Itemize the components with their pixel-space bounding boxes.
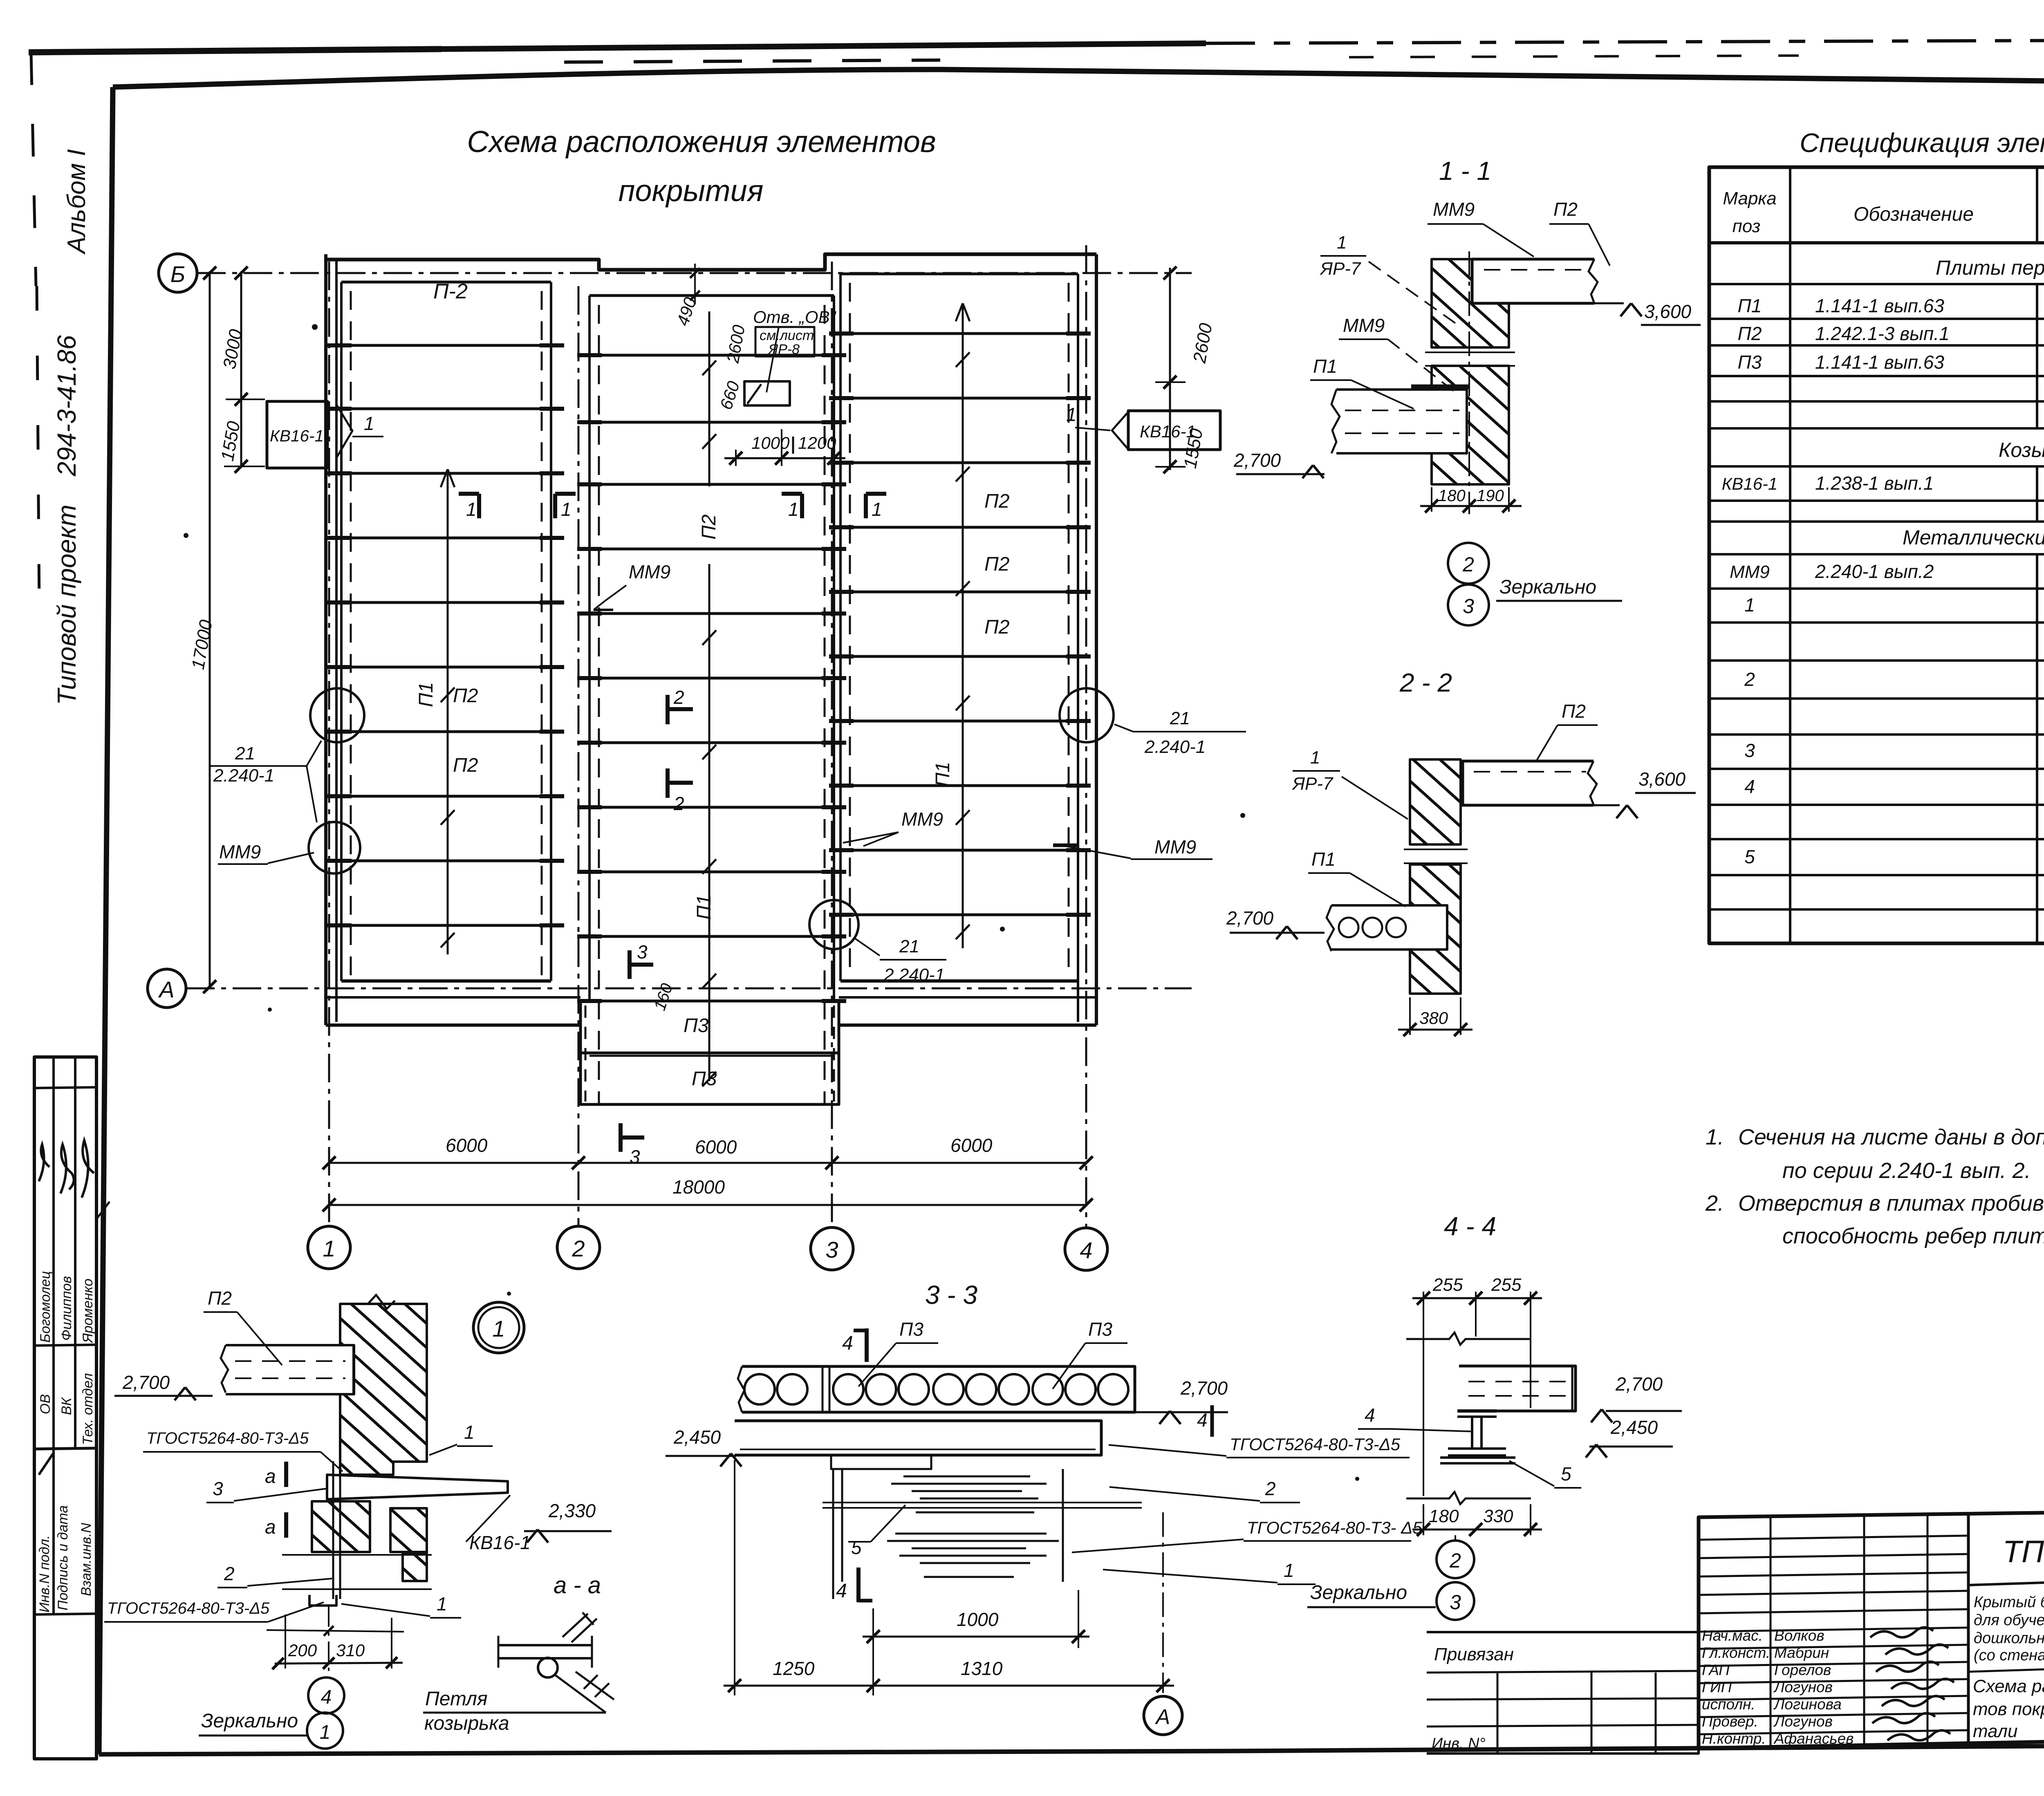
- svg-text:П2: П2: [453, 755, 478, 776]
- axis circle А: [148, 969, 186, 1008]
- a-a lower diagonal marks: [576, 1672, 614, 1700]
- svg-text:П2: П2: [453, 685, 478, 707]
- svg-text:1: 1: [437, 1593, 447, 1615]
- svg-text:1: 1: [1310, 748, 1320, 768]
- svg-text:1: 1: [464, 1422, 475, 1443]
- svg-text:4 - 4: 4 - 4: [1444, 1212, 1496, 1241]
- svg-text:1: 1: [788, 499, 799, 520]
- anchor ticks along bay edges: [327, 343, 352, 347]
- svg-text:П1: П1: [1738, 295, 1762, 316]
- node1 slab П2 dashed: [226, 1345, 354, 1394]
- svg-text:2,700: 2,700: [122, 1372, 170, 1393]
- svg-text:Подпись и дата: Подпись и дата: [55, 1505, 71, 1610]
- svg-text:380: 380: [1419, 1008, 1448, 1028]
- svg-text:3 - 3: 3 - 3: [925, 1280, 977, 1310]
- sidebar check mark: [39, 1453, 53, 1475]
- svg-text:Инв.N подл.: Инв.N подл.: [37, 1535, 52, 1612]
- section 3-3 dim verticals: [734, 1460, 735, 1695]
- svg-text:4: 4: [321, 1686, 332, 1708]
- svg-text:2 - 2: 2 - 2: [1399, 668, 1452, 697]
- svg-text:П2: П2: [698, 515, 720, 540]
- main frame top (scan-warped): [113, 69, 2044, 87]
- svg-text:П-2: П-2: [433, 280, 468, 303]
- axis circle 3: [811, 1227, 853, 1270]
- spec table outer frame: [1709, 167, 2044, 943]
- bottom wall double line right part: [839, 996, 1096, 999]
- svg-text:ТГОСТ5264-80-Т3-Δ5: ТГОСТ5264-80-Т3-Δ5: [107, 1599, 270, 1617]
- svg-text:1250: 1250: [773, 1658, 815, 1679]
- svg-text:П3: П3: [1088, 1319, 1112, 1340]
- svg-text:1: 1: [364, 413, 374, 434]
- svg-text:Схема расположения элемен-: Схема расположения элемен-: [1973, 1676, 2044, 1696]
- axis line 3: [831, 262, 833, 1226]
- svg-text:Провер.: Провер.: [1702, 1713, 1758, 1730]
- svg-text:П3: П3: [899, 1319, 923, 1340]
- section 1-1 axis line: [1468, 251, 1470, 514]
- svg-text:190: 190: [1477, 487, 1504, 505]
- svg-text:Логунов: Логунов: [1773, 1713, 1833, 1730]
- svg-text:1: 1: [1744, 594, 1755, 616]
- svg-text:исполн.: исполн.: [1702, 1696, 1755, 1713]
- svg-text:тали: тали: [1973, 1721, 2017, 1741]
- section 3-3 supporting beam strip: [735, 1421, 1101, 1455]
- node1 masonry hatched below canopy: [312, 1501, 370, 1552]
- section 1-1 wall break lines: [1425, 352, 1515, 353]
- right dim line 2600/1550: [1169, 268, 1171, 470]
- dim line 1000|1200: [735, 450, 737, 466]
- svg-text:Мабрин: Мабрин: [1774, 1644, 1829, 1661]
- section 3-3 long thin line pair: [823, 1502, 1142, 1503]
- node1 anchor strap: [332, 1461, 334, 1599]
- svg-text:способность ребер плит.: способность ребер плит.: [1782, 1224, 2044, 1248]
- svg-text:21: 21: [1170, 708, 1190, 728]
- svg-text:2: 2: [673, 793, 684, 814]
- svg-text:а: а: [265, 1466, 276, 1487]
- svg-text:ГИП: ГИП: [1702, 1679, 1732, 1695]
- svg-text:1000: 1000: [957, 1609, 999, 1630]
- svg-text:2: 2: [224, 1563, 235, 1584]
- svg-text:Зеркально: Зеркально: [201, 1710, 298, 1732]
- svg-text:3,600: 3,600: [1644, 301, 1692, 322]
- section 3-3 cut flag 4 top: [865, 1328, 869, 1362]
- svg-text:1.242.1-3 вып.1: 1.242.1-3 вып.1: [1815, 323, 1950, 344]
- section 2-2 slab П2: [1463, 761, 1594, 805]
- section 4-4 I-beam: [1457, 1409, 1497, 1413]
- svg-text:Отверстия в плитах пробиват: Отверстия в плитах пробивать не нарушая …: [1738, 1191, 2044, 1216]
- svg-text:а: а: [265, 1516, 276, 1538]
- svg-text:5: 5: [1561, 1463, 1571, 1485]
- svg-text:Взам.инв.N: Взам.инв.N: [78, 1523, 94, 1596]
- svg-text:ММ9: ММ9: [901, 808, 943, 830]
- svg-text:П2: П2: [984, 616, 1009, 638]
- section 4-4 bottom break line: [1406, 1492, 1531, 1504]
- main frame left: [99, 87, 113, 1754]
- svg-text:Сечения на листе даны в д: Сечения на листе даны в дополнение к дет…: [1738, 1125, 2044, 1149]
- svg-text:козырька: козырька: [424, 1713, 509, 1734]
- svg-text:Спецификация элементов покры: Спецификация элементов покрытия: [1800, 128, 2044, 158]
- section 4-4 detail circle 2: [1455, 1535, 1456, 1541]
- section 1-1 slab П2: [1472, 259, 1594, 303]
- svg-text:2,330: 2,330: [548, 1500, 596, 1521]
- svg-text:1.141-1 вып.63: 1.141-1 вып.63: [1815, 352, 1944, 373]
- svg-text:1.141-1 вып.63: 1.141-1 вып.63: [1815, 295, 1944, 316]
- svg-text:1.238-1 вып.1: 1.238-1 вып.1: [1815, 473, 1934, 494]
- section 3-3 dim 1250|1310: [724, 1685, 1174, 1687]
- svg-text:294-3-41.86: 294-3-41.86: [52, 335, 81, 477]
- node 1 detail circle (double): [473, 1302, 524, 1353]
- span direction line bay 3: [962, 303, 964, 948]
- svg-text:4: 4: [842, 1332, 853, 1354]
- svg-text:П1: П1: [1311, 849, 1336, 870]
- node1 strap foot: [309, 1595, 336, 1606]
- svg-text:1: 1: [1284, 1560, 1294, 1581]
- node1 canopy slab КВ16-1: [327, 1475, 508, 1499]
- boxed note см.лист АР-8: [755, 327, 814, 356]
- svg-text:ММ9: ММ9: [219, 841, 261, 862]
- section flag 1 (c): [782, 492, 802, 496]
- svg-text:1: 1: [320, 1722, 331, 1743]
- П3 slabs below axis А: [580, 1001, 839, 1104]
- axis circle 4: [1065, 1228, 1107, 1270]
- svg-text:П2: П2: [1738, 323, 1762, 344]
- svg-text:ВК: ВК: [59, 1397, 74, 1415]
- svg-text:А: А: [158, 976, 174, 1002]
- title block label row lines: [1699, 1628, 1968, 1632]
- svg-text:ЯР-8: ЯР-8: [768, 342, 800, 357]
- svg-text:2,700: 2,700: [1180, 1377, 1228, 1399]
- section 3-3 cut flag 4 bottom: [856, 1568, 861, 1602]
- label 21/2.240-1 bottom (axis3): [854, 938, 880, 956]
- weld node circle (axis4): [1060, 688, 1114, 742]
- svg-text:ТП 294-3-41.86: ТП 294-3-41.86: [2003, 1534, 2044, 1569]
- svg-text:1: 1: [561, 499, 572, 520]
- svg-text:П1: П1: [932, 762, 954, 787]
- svg-text:Б: Б: [170, 261, 185, 287]
- section 1-1 lower wall hatched: [1432, 366, 1509, 484]
- title block ТП row: [1968, 1570, 2044, 1585]
- svg-text:18000: 18000: [672, 1176, 725, 1198]
- section 1-1 dim 180|190: [1431, 487, 1432, 512]
- svg-text:1: 1: [1066, 404, 1077, 425]
- svg-text:Отв. „ОВ": Отв. „ОВ": [753, 307, 837, 327]
- span direction line bay 2: [708, 311, 710, 486]
- section 2-2 slab П1 with cores: [1331, 905, 1447, 950]
- section 3-3 bearing plate: [831, 1455, 931, 1469]
- bay 2 slab field: [589, 294, 834, 297]
- svg-text:Зеркально: Зеркально: [1499, 576, 1596, 598]
- section flag 2 upper: [666, 695, 670, 724]
- title block upper empty row lines: [1699, 1536, 1968, 1540]
- svg-text:ММ9: ММ9: [1154, 836, 1196, 858]
- section 4-4 dim 255|255: [1423, 1292, 1424, 1496]
- svg-text:Петля: Петля: [425, 1688, 488, 1710]
- svg-text:1: 1: [466, 499, 477, 520]
- left dim line 17000: [209, 271, 211, 988]
- Привязан box: [1427, 1632, 1699, 1753]
- left dim line 3000/1550: [240, 271, 242, 466]
- svg-text:Инв. N°: Инв. N°: [1432, 1735, 1486, 1752]
- sidebar signatures (squiggles): [39, 1144, 49, 1181]
- svg-text:Богомолец: Богомолец: [38, 1271, 53, 1343]
- section 3-3 dim 1000: [863, 1636, 1089, 1638]
- svg-text:для обучения плаванию детей: для обучения плаванию детей: [1974, 1612, 2044, 1629]
- svg-text:см.лист: см.лист: [760, 328, 814, 343]
- left wall double line: [324, 254, 327, 1025]
- svg-text:П2: П2: [984, 490, 1009, 512]
- svg-text:П2: П2: [208, 1288, 232, 1309]
- label 21/2.240-1 right: [1114, 724, 1133, 732]
- svg-text:200: 200: [288, 1641, 317, 1660]
- top scan dash artifacts: [564, 60, 940, 62]
- outer page border left (dashed): [31, 52, 36, 286]
- svg-text:2,700: 2,700: [1615, 1373, 1663, 1395]
- bottom dim line 6000x3: [329, 1162, 1086, 1164]
- section 3-3 hollow core slab band: [742, 1366, 1135, 1412]
- svg-text:5: 5: [1744, 846, 1755, 867]
- svg-text:ЯР-7: ЯР-7: [1292, 774, 1334, 794]
- title block outer: [1699, 1507, 2044, 1748]
- section 3-3 grate sides: [841, 1469, 843, 1582]
- section 2-2 elevation 3,600: [1594, 804, 1620, 806]
- svg-text:1: 1: [1337, 233, 1347, 253]
- svg-text:3: 3: [630, 1146, 640, 1167]
- svg-text:П2: П2: [1562, 701, 1586, 722]
- svg-text:П3: П3: [692, 1068, 717, 1090]
- svg-text:1 - 1: 1 - 1: [1439, 156, 1491, 186]
- svg-text:(со стенами из кирпича): (со стенами из кирпича): [1974, 1647, 2044, 1664]
- weld node circle (axis1 lower): [309, 822, 360, 873]
- svg-text:330: 330: [1483, 1506, 1513, 1526]
- axis line 2: [578, 286, 580, 1226]
- right wall double line: [1095, 254, 1098, 1025]
- section flag 3 lower: [619, 1123, 623, 1152]
- canopy box КВ16-1 right: [1128, 411, 1220, 450]
- svg-text:КВ16-1: КВ16-1: [270, 427, 324, 445]
- svg-text:3: 3: [1450, 1591, 1461, 1614]
- section 3-3 cut flag 4 right: [1210, 1405, 1214, 1437]
- section 2-2 dim 380: [1409, 997, 1411, 1035]
- axis circle 2: [557, 1226, 600, 1269]
- svg-text:180: 180: [1438, 487, 1466, 505]
- spec table header bottom line: [1709, 241, 2044, 244]
- svg-text:П2: П2: [1553, 199, 1578, 220]
- svg-text:П3: П3: [1738, 352, 1762, 373]
- bottom wall double line left part: [326, 996, 580, 999]
- svg-text:2: 2: [1265, 1478, 1276, 1499]
- section flag 1 (b): [555, 492, 576, 496]
- svg-text:Яроменко: Яроменко: [80, 1279, 96, 1344]
- svg-text:1.: 1.: [1706, 1125, 1724, 1149]
- svg-text:1000: 1000: [751, 433, 790, 452]
- section flag 2 lower: [666, 768, 670, 798]
- section 3-3 louver lines: [903, 1476, 1030, 1478]
- svg-text:2,700: 2,700: [1233, 450, 1281, 471]
- bottom dim line 18000: [329, 1204, 1086, 1206]
- section 1-1 slab П1: [1336, 390, 1467, 453]
- svg-text:255: 255: [1432, 1275, 1463, 1295]
- a-a canopy plate: [498, 1644, 592, 1646]
- svg-text:ММ9: ММ9: [629, 561, 670, 582]
- section 2-2 upper wall hatched: [1410, 759, 1461, 844]
- section 4-4 top break line: [1406, 1332, 1531, 1345]
- svg-text:Нач.мас.: Нач.мас.: [1702, 1627, 1763, 1644]
- section 4-4 slab П2 dashed: [1459, 1366, 1576, 1411]
- section 3-3 axis circle А: [1144, 1696, 1182, 1735]
- svg-text:П3: П3: [684, 1015, 709, 1037]
- title block signature columns: [1770, 1516, 1772, 1747]
- node1 center line: [328, 1606, 329, 1678]
- bay 1 slab field: [341, 281, 551, 284]
- svg-text:310: 310: [336, 1641, 365, 1660]
- svg-text:Альбом I: Альбом I: [63, 149, 91, 255]
- span direction line bay 1: [447, 469, 449, 954]
- svg-text:3: 3: [825, 1237, 838, 1263]
- svg-text:Логинова: Логинова: [1773, 1696, 1842, 1713]
- svg-text:по серии 2.240-1 вып. 2.: по серии 2.240-1 вып. 2.: [1782, 1158, 2031, 1183]
- section 4-4 bottom plate poz.5: [1440, 1456, 1515, 1459]
- axis line 1: [328, 262, 330, 1226]
- svg-text:21: 21: [899, 936, 919, 956]
- main frame bottom: [99, 1751, 1226, 1754]
- svg-text:Афанасьев: Афанасьев: [1773, 1730, 1854, 1747]
- svg-text:2.240-1: 2.240-1: [213, 766, 274, 786]
- svg-text:3,600: 3,600: [1638, 768, 1686, 790]
- svg-text:2,700: 2,700: [1226, 907, 1274, 929]
- section flag 1 (a): [459, 492, 479, 496]
- svg-text:1310: 1310: [961, 1658, 1003, 1679]
- svg-text:1: 1: [492, 1316, 505, 1341]
- svg-text:Крытый бассейн с ванной 3×7м: Крытый бассейн с ванной 3×7м: [1974, 1594, 2044, 1611]
- section 1-1 detail circle 3: [1448, 584, 1489, 625]
- svg-text:2: 2: [673, 687, 684, 708]
- svg-text:6000: 6000: [695, 1136, 737, 1158]
- svg-text:КВ16-1: КВ16-1: [469, 1532, 531, 1553]
- section flag 3 upper: [628, 950, 632, 979]
- svg-text:2: 2: [572, 1236, 585, 1261]
- node1 detail circle 4: [308, 1677, 344, 1713]
- svg-text:1200: 1200: [798, 433, 836, 452]
- svg-text:П1: П1: [1313, 356, 1337, 377]
- svg-text:ТГОСТ5264-80-Т3- Δ5: ТГОСТ5264-80-Т3- Δ5: [1247, 1518, 1422, 1537]
- svg-text:Привязан: Привязан: [1434, 1644, 1514, 1664]
- weld node circle (axis3 lower): [809, 900, 858, 949]
- svg-text:3: 3: [213, 1478, 223, 1499]
- svg-text:Зеркально: Зеркально: [1310, 1582, 1407, 1603]
- section 1-1 elevation 3,600: [1594, 302, 1624, 305]
- svg-text:Горелов: Горелов: [1774, 1662, 1831, 1678]
- svg-text:1: 1: [323, 1236, 335, 1261]
- svg-text:ЯР-7: ЯР-7: [1320, 259, 1361, 279]
- svg-text:Обозначение: Обозначение: [1853, 204, 1974, 225]
- svg-text:Схема расположения элементов: Схема расположения элементов: [467, 125, 936, 159]
- svg-text:Козырьки: Козырьки: [1999, 439, 2044, 461]
- svg-text:4: 4: [836, 1580, 847, 1602]
- section 3-3 hanger rod: [832, 1469, 834, 1599]
- node1 detail circle 1: [307, 1713, 343, 1749]
- svg-text:поз: поз: [1732, 216, 1761, 236]
- svg-text:2: 2: [1744, 669, 1755, 690]
- svg-text:2: 2: [1449, 1549, 1461, 1572]
- section 1-1 detail circle 2: [1448, 543, 1489, 584]
- section 4-4 detail circle 3: [1437, 1582, 1474, 1620]
- axis line А: [186, 988, 1192, 990]
- spec table column lines: [1789, 167, 1791, 943]
- node1 cut mark a upper: [284, 1462, 288, 1487]
- axis circle Б: [159, 254, 197, 292]
- svg-text:3: 3: [637, 941, 648, 963]
- section 1-1 upper wall hatched: [1432, 259, 1509, 347]
- svg-text:тов покрытия. Узлы и де-: тов покрытия. Узлы и де-: [1973, 1699, 2044, 1719]
- a-a loop: [538, 1658, 558, 1677]
- svg-text:2: 2: [1462, 553, 1474, 576]
- axis line Б: [197, 272, 1192, 274]
- canopy box КВ16-1 left: [267, 401, 327, 468]
- svg-text:5: 5: [851, 1537, 862, 1558]
- svg-text:4: 4: [1080, 1237, 1092, 1263]
- section 2-2 lower wall hatched: [1410, 864, 1461, 994]
- svg-text:6000: 6000: [950, 1135, 993, 1156]
- svg-text:ММ9: ММ9: [1433, 199, 1475, 220]
- node1 dim 200|310: [285, 1615, 286, 1668]
- svg-text:Плиты перекрытия: Плиты перекрытия: [1936, 256, 2044, 279]
- svg-text:1: 1: [872, 499, 882, 520]
- svg-text:4: 4: [1365, 1404, 1375, 1426]
- spec table row lines: [1709, 283, 2044, 285]
- svg-text:4: 4: [1744, 776, 1755, 797]
- outer page border top: [29, 49, 442, 52]
- svg-text:180: 180: [1429, 1506, 1459, 1526]
- svg-text:Волков: Волков: [1774, 1627, 1824, 1644]
- svg-text:2.: 2.: [1705, 1191, 1724, 1216]
- node1 wall hatched upper: [340, 1304, 427, 1475]
- a-a upper diagonal marks: [563, 1614, 588, 1637]
- section 4-4 dim 180|330: [1423, 1504, 1424, 1535]
- svg-text:2.240-1 вып.2: 2.240-1 вып.2: [1815, 561, 1934, 582]
- svg-text:ТГОСТ5264-80-Т3-Δ5: ТГОСТ5264-80-Т3-Δ5: [146, 1429, 309, 1447]
- svg-text:Тех. отдел: Тех. отдел: [80, 1373, 96, 1445]
- svg-text:ОВ: ОВ: [38, 1394, 53, 1414]
- svg-text:Типовой проект: Типовой проект: [52, 504, 81, 705]
- stray scan specks: [312, 324, 318, 330]
- section 1-1 anchor plate ММ9: [1411, 385, 1469, 389]
- svg-text:Логунов: Логунов: [1773, 1679, 1833, 1695]
- weld node circle (axis1 upper): [310, 688, 364, 742]
- svg-text:3: 3: [1463, 595, 1474, 618]
- svg-text:2.240-1: 2.240-1: [1144, 737, 1206, 757]
- svg-text:П1: П1: [693, 895, 715, 920]
- svg-text:ГАП: ГАП: [1702, 1662, 1730, 1678]
- svg-text:Марка: Марка: [1723, 188, 1776, 208]
- section flag 1 (d): [866, 492, 886, 496]
- svg-text:Н.контр.: Н.контр.: [1702, 1730, 1766, 1747]
- svg-text:21: 21: [235, 743, 255, 764]
- svg-text:3: 3: [1744, 740, 1755, 761]
- svg-text:дошкольного возраста: дошкольного возраста: [1974, 1630, 2044, 1647]
- node1 cut mark a lower: [284, 1512, 288, 1538]
- svg-text:Металлические детали: Металлические детали: [1903, 526, 2044, 549]
- svg-text:4: 4: [1197, 1409, 1208, 1431]
- svg-text:2.240-1: 2.240-1: [883, 965, 945, 985]
- svg-text:КВ16-1: КВ16-1: [1722, 474, 1778, 493]
- opening Отв ОВ rectangle: [744, 381, 790, 405]
- svg-text:2,450: 2,450: [1610, 1417, 1658, 1438]
- svg-text:покрытия: покрытия: [619, 174, 764, 208]
- svg-text:а - а: а - а: [554, 1572, 601, 1599]
- sidebar inventory table: [34, 1057, 96, 1759]
- svg-text:2,450: 2,450: [673, 1426, 721, 1448]
- svg-text:ТГОСТ5264-80-Т3-Δ5: ТГОСТ5264-80-Т3-Δ5: [1230, 1435, 1401, 1454]
- axis line 4: [1085, 245, 1087, 1228]
